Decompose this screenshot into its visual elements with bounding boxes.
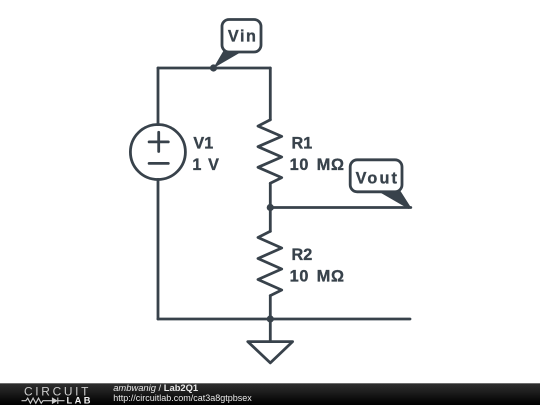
resistor R2 xyxy=(258,231,282,295)
svg-text:Vout: Vout xyxy=(356,169,398,187)
wire Vout horizontal xyxy=(270,206,411,209)
svg-text:10 MΩ: 10 MΩ xyxy=(290,268,345,286)
logo diode triangle xyxy=(52,397,58,404)
V1 minus sign xyxy=(149,162,168,165)
resistor R1 xyxy=(258,120,282,184)
svg-text:10 MΩ: 10 MΩ xyxy=(290,156,345,174)
flag Vin tail xyxy=(213,51,240,68)
flag Vout bubble xyxy=(350,160,402,192)
ground xyxy=(269,319,272,342)
wire left branch upper xyxy=(157,68,160,125)
V1 plus sign xyxy=(149,132,168,151)
svg-text:V1: V1 xyxy=(193,135,213,153)
wire R1 top lead xyxy=(269,68,272,120)
flag Vin bubble xyxy=(222,20,261,53)
node Vin dot xyxy=(210,64,217,71)
wire R2 top lead xyxy=(269,208,272,232)
svg-text:ambwanig / Lab2Q1: ambwanig / Lab2Q1 xyxy=(113,382,198,393)
svg-text:1 V: 1 V xyxy=(192,156,219,174)
flag Vout tail xyxy=(377,191,411,209)
voltage source V1 xyxy=(130,125,185,180)
wire left branch lower xyxy=(157,179,160,319)
footer bar xyxy=(0,383,540,405)
node ground dot xyxy=(267,315,274,322)
svg-text:R2: R2 xyxy=(292,246,313,264)
wire bottom horizontal xyxy=(158,318,410,321)
svg-text:Vin: Vin xyxy=(228,28,256,46)
wire top horizontal xyxy=(158,67,270,70)
node Vout dot xyxy=(267,204,274,211)
wire R1 bottom lead xyxy=(269,183,272,207)
logo resistor-diode row xyxy=(22,398,65,404)
svg-text:R1: R1 xyxy=(292,135,313,153)
wire R2 bottom lead xyxy=(269,296,272,319)
svg-text:LAB: LAB xyxy=(67,395,93,405)
svg-text:http://circuitlab.com/cat3a8gt: http://circuitlab.com/cat3a8gtpbsex xyxy=(113,393,252,403)
